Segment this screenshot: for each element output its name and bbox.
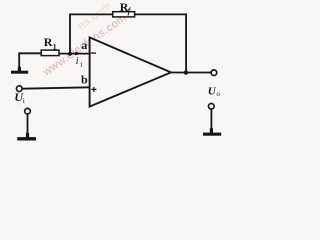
svg-text:b: b: [81, 73, 88, 87]
svg-text:o: o: [216, 90, 220, 98]
svg-text:i: i: [23, 96, 25, 105]
svg-text:1: 1: [53, 43, 57, 52]
svg-text:R: R: [44, 35, 53, 49]
svg-text:a: a: [81, 38, 87, 52]
svg-text:i: i: [76, 56, 79, 67]
svg-text:1: 1: [80, 61, 83, 68]
